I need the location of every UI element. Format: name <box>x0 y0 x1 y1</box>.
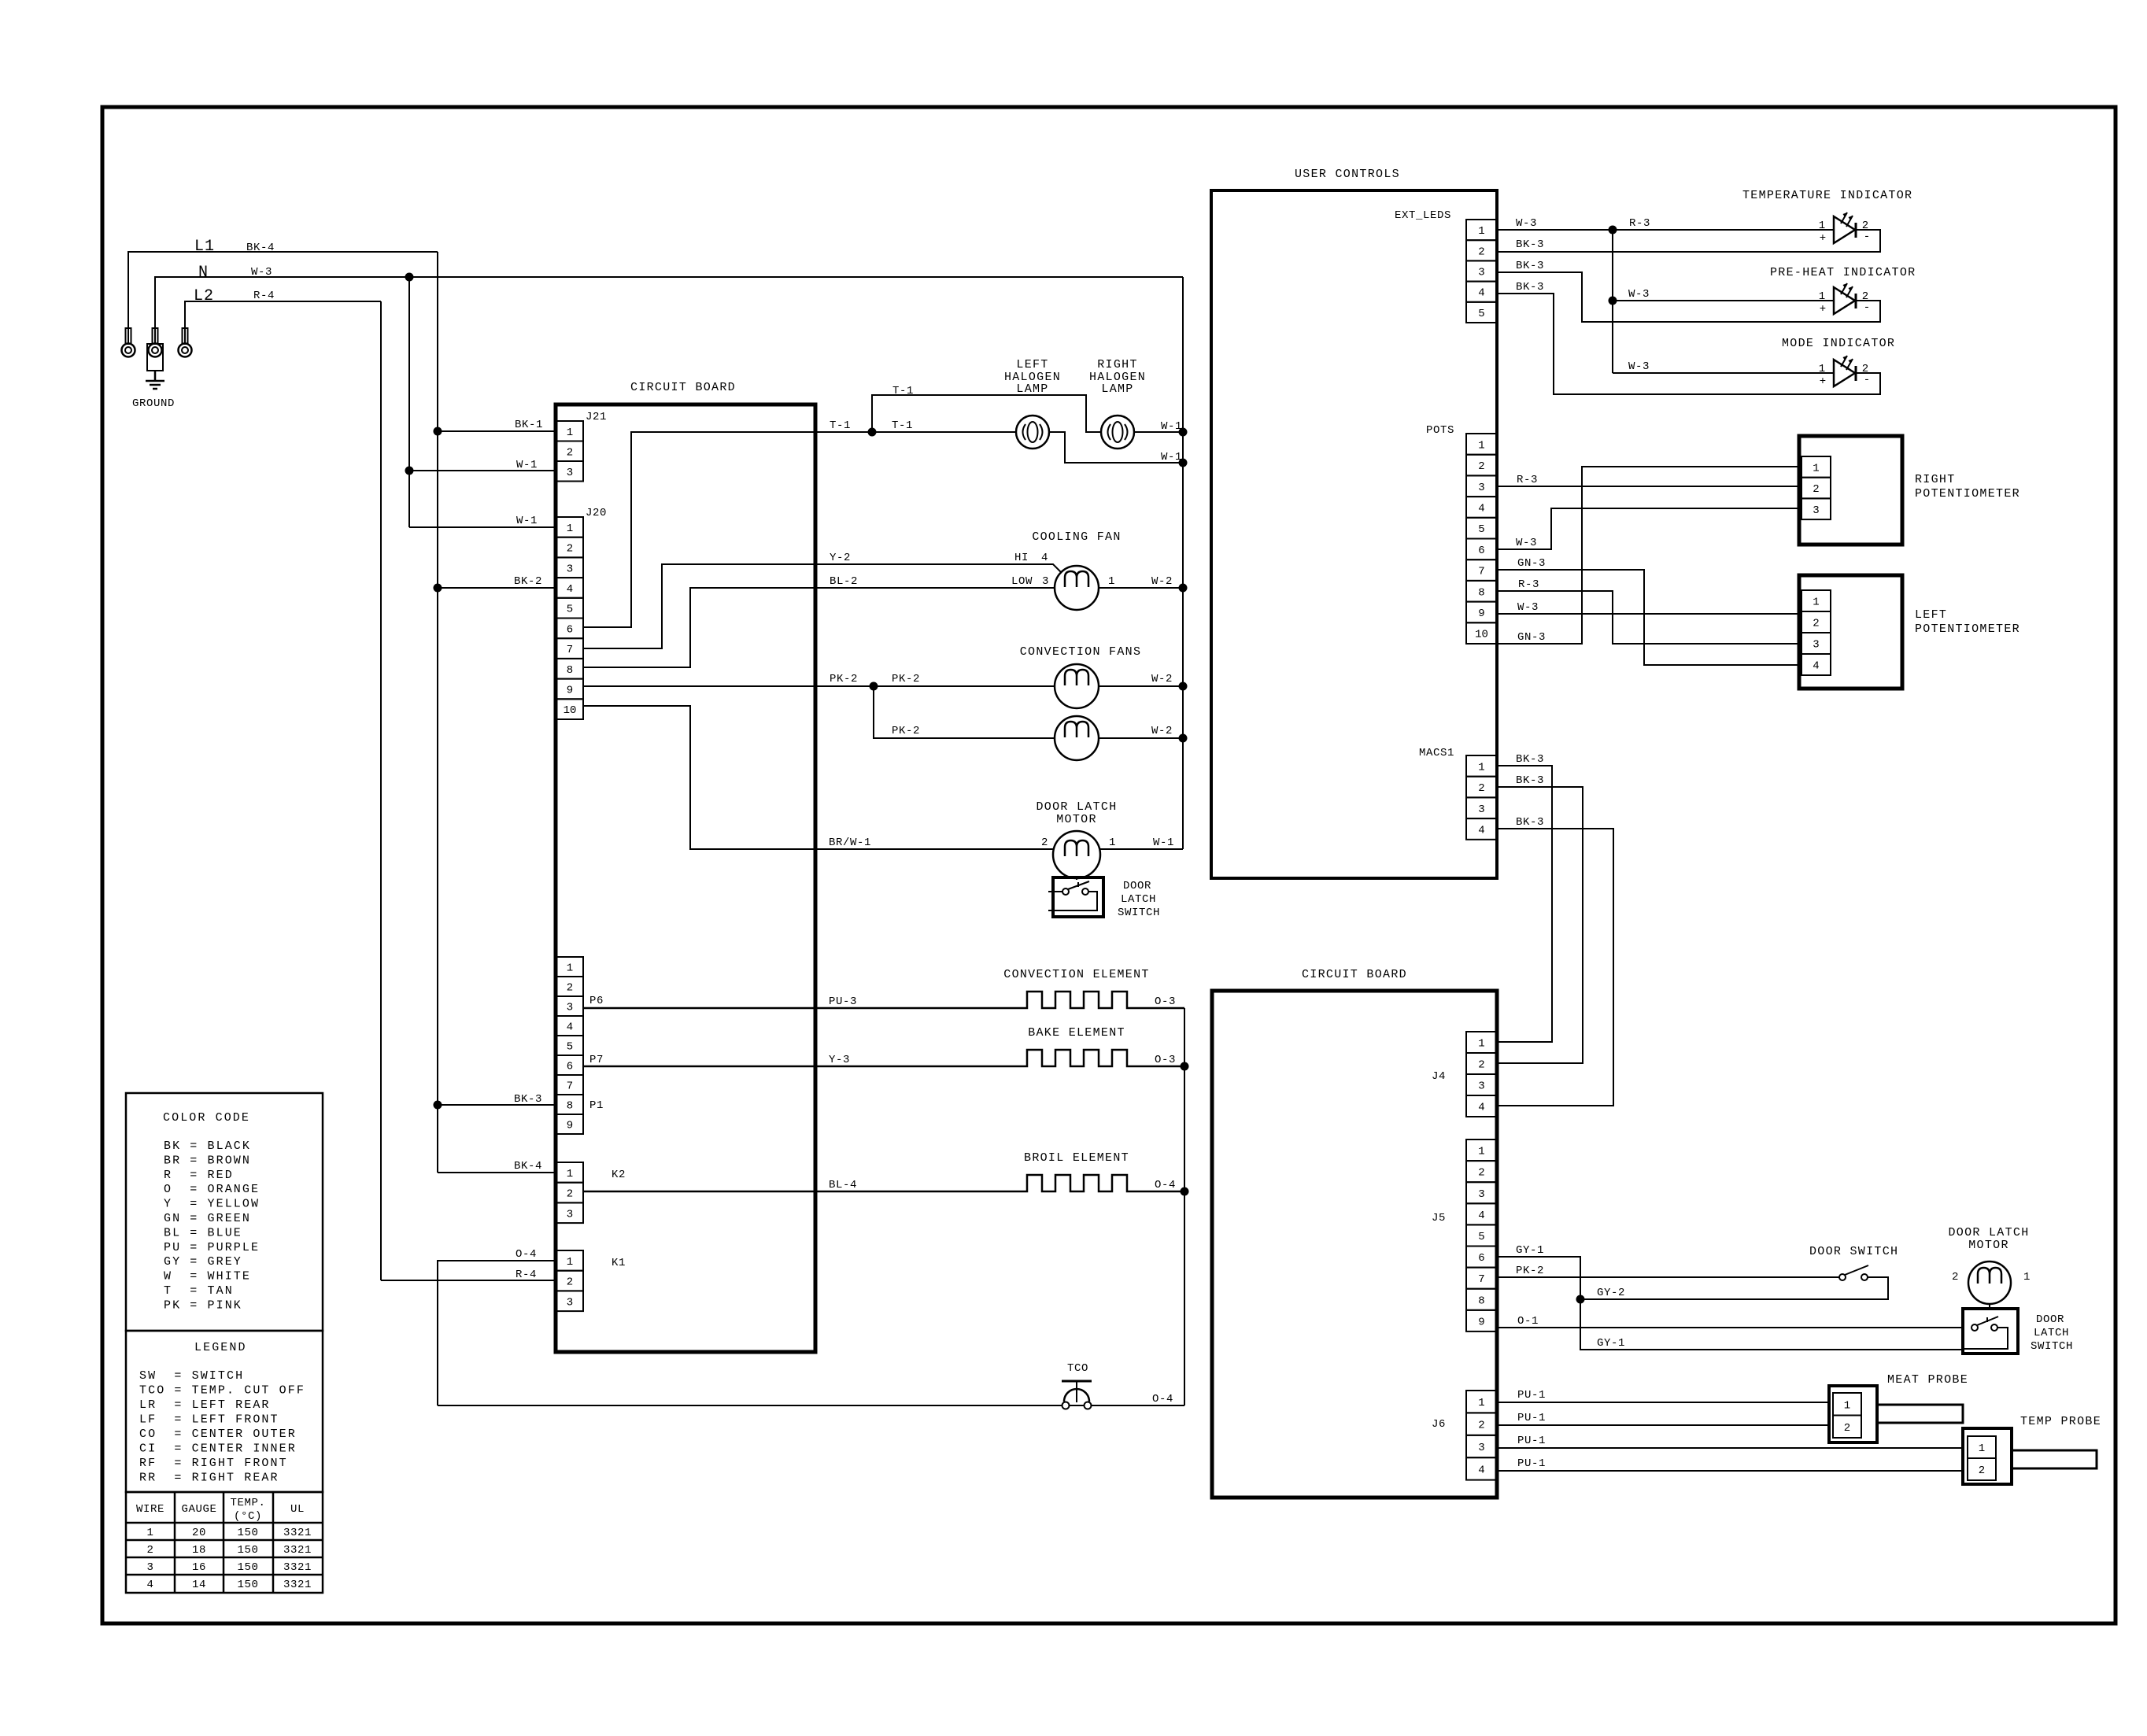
right halogen lamp <box>1101 416 1134 449</box>
svg-text:1: 1 <box>1478 1397 1484 1409</box>
wire T-1 top branch to right lamp <box>868 428 877 437</box>
svg-text:-: - <box>1864 231 1870 243</box>
svg-text:3: 3 <box>567 1002 573 1014</box>
connector EXT_LEDS pin 4 <box>1466 282 1497 302</box>
svg-text:2: 2 <box>567 982 573 995</box>
svg-text:3: 3 <box>1478 1080 1484 1093</box>
svg-text:W-3: W-3 <box>1516 537 1537 549</box>
svg-text:+: + <box>1820 232 1826 245</box>
connector EXT_LEDS pin 3 <box>1466 260 1497 281</box>
temperature indicator LED <box>1834 216 1855 243</box>
connector J4 pin 1 <box>1466 1032 1497 1053</box>
svg-text:CIRCUIT BOARD: CIRCUIT BOARD <box>1302 968 1407 981</box>
svg-text:BK-1: BK-1 <box>515 419 543 431</box>
svg-text:PRE-HEAT INDICATOR: PRE-HEAT INDICATOR <box>1770 266 1916 279</box>
svg-text:9: 9 <box>1478 608 1484 620</box>
wire W neutral bus <box>1182 277 1184 849</box>
svg-text:2: 2 <box>1844 1422 1850 1435</box>
connector J20 pin 4 <box>556 578 583 598</box>
connector MACS1 pin 4 <box>1466 818 1497 840</box>
wire W-1 right lamp return <box>1134 431 1183 433</box>
temp probe pin 1 <box>1968 1436 1996 1458</box>
svg-text:RF = RIGHT FRONT: RF = RIGHT FRONT <box>139 1457 288 1470</box>
connector J5 pin 4 <box>1466 1203 1497 1224</box>
svg-text:3: 3 <box>146 1561 153 1574</box>
svg-text:BR = BROWN: BR = BROWN <box>164 1154 251 1167</box>
connector P6/P7/P1 pin 4 <box>556 1016 583 1036</box>
connector J20 pin 9 <box>556 679 583 700</box>
svg-text:J21: J21 <box>586 411 607 423</box>
connector J20 pin 1 <box>556 517 583 537</box>
svg-text:J20: J20 <box>586 507 607 519</box>
svg-text:BK-3: BK-3 <box>1516 753 1544 766</box>
svg-text:2: 2 <box>567 1188 573 1201</box>
svg-text:2: 2 <box>1478 460 1484 473</box>
wire BK-3 MACS1 pin2 to J4 pin2 <box>1497 787 1583 1063</box>
svg-text:3: 3 <box>1813 504 1819 517</box>
connector J4 pin 2 <box>1466 1053 1497 1074</box>
svg-text:TEMP PROBE: TEMP PROBE <box>2020 1415 2101 1428</box>
svg-text:O-4: O-4 <box>1155 1179 1176 1191</box>
svg-text:LOW: LOW <box>1011 575 1033 588</box>
svg-text:W-1: W-1 <box>1153 837 1174 849</box>
svg-text:J6: J6 <box>1432 1418 1446 1431</box>
terminal lug L1 <box>126 328 131 344</box>
svg-text:150: 150 <box>237 1527 258 1539</box>
svg-text:LAMP: LAMP <box>1016 382 1048 396</box>
wire BK-3 mode return <box>1497 294 1880 394</box>
convection element resistor <box>583 992 1184 1008</box>
svg-text:2: 2 <box>1813 483 1819 496</box>
svg-text:1: 1 <box>1478 761 1484 774</box>
svg-text:6: 6 <box>567 1061 573 1073</box>
connector POTS pin 10 <box>1466 622 1497 644</box>
wire W-2 cooling fan return <box>1099 587 1183 589</box>
svg-text:MEAT PROBE: MEAT PROBE <box>1887 1373 1968 1387</box>
color code box <box>126 1093 323 1331</box>
svg-text:PK-2: PK-2 <box>830 673 858 685</box>
svg-text:1: 1 <box>1109 837 1116 849</box>
svg-text:LAMP: LAMP <box>1101 382 1133 396</box>
svg-text:WIRE: WIRE <box>136 1503 164 1516</box>
svg-text:3321: 3321 <box>283 1579 312 1591</box>
svg-text:EXT_LEDS: EXT_LEDS <box>1395 209 1451 222</box>
svg-text:RIGHT: RIGHT <box>1915 473 1956 486</box>
svg-text:3: 3 <box>567 563 573 575</box>
door latch motor 2 <box>1968 1261 2011 1304</box>
door latch switch box <box>1053 877 1103 917</box>
connector POTS pin 2 <box>1466 455 1497 476</box>
svg-text:R-3: R-3 <box>1517 474 1538 486</box>
svg-text:1: 1 <box>1478 1146 1484 1158</box>
connector POTS pin 9 <box>1466 602 1497 623</box>
temp probe pin 2 <box>1968 1458 1996 1480</box>
connector J4 pin 4 <box>1466 1095 1497 1117</box>
connector POTS pin 4 <box>1466 497 1497 518</box>
svg-text:3321: 3321 <box>283 1544 312 1557</box>
temp probe connector <box>1963 1428 2012 1484</box>
connector J5 pin 9 <box>1466 1310 1497 1332</box>
svg-text:4: 4 <box>1813 660 1819 673</box>
svg-text:DOOR: DOOR <box>1123 880 1151 892</box>
connector J5 pin 7 <box>1466 1268 1497 1289</box>
svg-text:+: + <box>1820 375 1826 388</box>
wire L2 feed <box>185 301 381 344</box>
svg-text:BK = BLACK: BK = BLACK <box>164 1139 251 1153</box>
svg-text:GY-1: GY-1 <box>1516 1244 1544 1257</box>
circuit board 2 <box>1212 991 1497 1498</box>
wire PU-1 J6 pin2 <box>1497 1424 1829 1426</box>
svg-text:9: 9 <box>1478 1316 1484 1328</box>
svg-text:HI: HI <box>1014 552 1029 564</box>
svg-text:RIGHT: RIGHT <box>1097 358 1138 371</box>
svg-text:POTENTIOMETER: POTENTIOMETER <box>1915 487 2020 500</box>
svg-text:6: 6 <box>1478 1252 1484 1265</box>
svg-text:T = TAN: T = TAN <box>164 1284 234 1298</box>
wire W-2 convection fan1 return <box>1099 685 1183 687</box>
svg-text:1: 1 <box>146 1527 153 1539</box>
svg-text:20: 20 <box>192 1527 206 1539</box>
left potentiometer pin 1 <box>1801 590 1831 611</box>
svg-text:7: 7 <box>1478 566 1484 578</box>
left potentiometer pin 3 <box>1801 633 1831 654</box>
svg-text:3: 3 <box>1478 803 1484 816</box>
left halogen lamp <box>1016 416 1049 449</box>
wire BK-3 MACS1 pin4 to J4 pin4 <box>1497 829 1613 1106</box>
svg-text:2: 2 <box>1478 1420 1484 1432</box>
wire GN-3 POTS pin10 to right pot pin1 <box>1497 467 1801 644</box>
left potentiometer box <box>1799 575 1902 689</box>
door latch switch 2 contacts <box>1971 1324 1978 1331</box>
connector P6/P7/P1 pin 7 <box>556 1075 583 1095</box>
svg-text:2: 2 <box>1478 1059 1484 1072</box>
svg-text:1: 1 <box>1979 1442 1985 1455</box>
wire W-3 R-3 to temperature LED <box>1497 229 1834 231</box>
connector POTS pin 5 <box>1466 518 1497 539</box>
svg-text:W-3: W-3 <box>1628 288 1650 301</box>
wire GY-1 from J5 pin6 <box>1497 1257 1963 1350</box>
svg-text:COOLING FAN: COOLING FAN <box>1032 530 1121 544</box>
svg-text:3: 3 <box>1478 1442 1484 1454</box>
svg-text:PU-1: PU-1 <box>1517 1435 1546 1447</box>
connector J20 pin 6 <box>556 619 583 639</box>
svg-text:BK-3: BK-3 <box>1516 238 1544 251</box>
svg-text:BL-4: BL-4 <box>829 1179 857 1191</box>
meat probe connector <box>1829 1386 1877 1442</box>
pre-heat indicator LED <box>1834 287 1855 314</box>
wire W-1 door latch motor return <box>1099 848 1183 850</box>
svg-text:4: 4 <box>1478 1102 1484 1114</box>
svg-text:3: 3 <box>567 467 573 479</box>
svg-text:(°C): (°C) <box>234 1510 262 1523</box>
right potentiometer pin 3 <box>1801 498 1831 519</box>
svg-text:1: 1 <box>2023 1271 2031 1284</box>
svg-text:1: 1 <box>567 523 573 535</box>
svg-text:4: 4 <box>1478 824 1484 837</box>
connector J6 pin 4 <box>1466 1457 1497 1479</box>
svg-text:DOOR LATCH: DOOR LATCH <box>1036 800 1117 814</box>
wire O-1 from J5 pin9 <box>1497 1327 1963 1328</box>
connector K2 pin 3 <box>556 1202 583 1223</box>
cooling fan motor <box>1055 566 1099 610</box>
svg-text:8: 8 <box>567 664 573 677</box>
door latch motor 2 stub <box>1989 1304 1990 1309</box>
connector POTS pin 1 <box>1466 434 1497 455</box>
svg-text:BR/W-1: BR/W-1 <box>829 837 871 849</box>
svg-text:GN-3: GN-3 <box>1517 557 1546 570</box>
wire element O bus <box>1184 1008 1185 1405</box>
connector K1 pin 1 <box>556 1250 583 1271</box>
svg-text:14: 14 <box>192 1579 206 1591</box>
svg-text:MOTOR: MOTOR <box>1056 813 1097 826</box>
svg-text:MACS1: MACS1 <box>1419 747 1454 759</box>
connector P6/P7/P1 pin 2 <box>556 977 583 996</box>
svg-text:2: 2 <box>1478 246 1484 258</box>
svg-text:7: 7 <box>567 1080 573 1093</box>
meat probe pin 1 <box>1833 1393 1861 1416</box>
svg-text:J5: J5 <box>1432 1212 1446 1224</box>
svg-text:R = RED: R = RED <box>164 1169 234 1182</box>
svg-text:POTENTIOMETER: POTENTIOMETER <box>1915 622 2020 636</box>
door latch motor stub <box>1076 877 1077 880</box>
svg-text:4: 4 <box>146 1579 153 1591</box>
svg-text:-: - <box>1864 301 1870 314</box>
wire W-2 convection fan2 return <box>1099 737 1183 739</box>
connector J20 pin 7 <box>556 638 583 659</box>
svg-text:1: 1 <box>1844 1399 1850 1412</box>
svg-text:GY-2: GY-2 <box>1597 1287 1625 1299</box>
svg-text:BK-3: BK-3 <box>1516 816 1544 829</box>
svg-text:1: 1 <box>567 1168 573 1180</box>
svg-text:16: 16 <box>192 1561 206 1574</box>
svg-text:PK = PINK: PK = PINK <box>164 1298 242 1312</box>
broil element resistor <box>583 1175 1184 1191</box>
connector J20 pin 10 <box>556 699 583 719</box>
svg-text:PU = PURPLE: PU = PURPLE <box>164 1241 260 1254</box>
svg-text:K1: K1 <box>612 1257 626 1269</box>
door latch motor <box>1053 831 1100 878</box>
wire BL-2 from J20 pin8 LOW <box>583 588 1055 667</box>
connector J5 pin 6 <box>1466 1247 1497 1268</box>
svg-text:BROIL ELEMENT: BROIL ELEMENT <box>1024 1151 1129 1165</box>
svg-text:8: 8 <box>567 1100 573 1113</box>
TCO symbol <box>1062 1380 1092 1383</box>
connector K1 pin 3 <box>556 1291 583 1311</box>
svg-text:TCO: TCO <box>1067 1362 1088 1375</box>
svg-text:4: 4 <box>567 583 573 596</box>
left potentiometer pin 2 <box>1801 611 1831 633</box>
svg-text:R-4: R-4 <box>253 290 275 302</box>
wire BK-3 MACS1 pin1 to J4 pin1 <box>1497 766 1552 1042</box>
wire PU-1 J6 pin3 <box>1497 1447 1963 1449</box>
svg-text:2: 2 <box>1813 618 1819 630</box>
svg-text:3: 3 <box>1042 575 1049 588</box>
connector P6/P7/P1 pin 6 <box>556 1055 583 1075</box>
svg-text:3: 3 <box>567 1208 573 1221</box>
svg-text:W-2: W-2 <box>1151 673 1173 685</box>
meat probe shaft <box>1877 1405 1963 1423</box>
connector J5 pin 5 <box>1466 1224 1497 1246</box>
right potentiometer pin 1 <box>1801 456 1831 478</box>
svg-text:PU-1: PU-1 <box>1517 1389 1546 1402</box>
connector J6 pin 1 <box>1466 1391 1497 1413</box>
connector MACS1 pin 3 <box>1466 797 1497 818</box>
wire BK-3 temperature LED return <box>1497 230 1880 252</box>
svg-text:BK-3: BK-3 <box>1516 260 1544 272</box>
wire BK-3 pre-heat return <box>1497 272 1880 322</box>
svg-text:1: 1 <box>1813 597 1819 609</box>
svg-text:4: 4 <box>1478 502 1484 515</box>
svg-text:CI = CENTER INNER: CI = CENTER INNER <box>139 1442 297 1456</box>
svg-text:2: 2 <box>1041 837 1048 849</box>
legend box <box>126 1331 323 1492</box>
svg-text:LF = LEFT FRONT: LF = LEFT FRONT <box>139 1413 279 1427</box>
connector K2 pin 2 <box>556 1183 583 1203</box>
meat probe pin 2 <box>1833 1416 1861 1439</box>
svg-text:O-4: O-4 <box>516 1248 537 1261</box>
left potentiometer pin 4 <box>1801 654 1831 675</box>
svg-text:DOOR SWITCH: DOOR SWITCH <box>1809 1245 1898 1258</box>
ground symbol <box>146 371 164 389</box>
svg-text:O = ORANGE: O = ORANGE <box>164 1183 260 1196</box>
svg-text:GAUGE: GAUGE <box>181 1503 216 1516</box>
svg-text:PK-2: PK-2 <box>892 673 920 685</box>
svg-text:3321: 3321 <box>283 1561 312 1574</box>
svg-text:W-2: W-2 <box>1151 575 1173 588</box>
right potentiometer box <box>1799 436 1902 545</box>
svg-text:DOOR LATCH: DOOR LATCH <box>1948 1226 2029 1239</box>
svg-text:2: 2 <box>1979 1465 1985 1477</box>
svg-text:CO = CENTER OUTER: CO = CENTER OUTER <box>139 1428 297 1441</box>
svg-text:1: 1 <box>1478 1038 1484 1051</box>
door latch switch 2 box <box>1963 1309 2018 1354</box>
svg-text:BK-4: BK-4 <box>514 1160 542 1173</box>
svg-text:4: 4 <box>1478 287 1484 300</box>
svg-text:PK-2: PK-2 <box>1516 1265 1544 1277</box>
svg-text:MODE INDICATOR: MODE INDICATOR <box>1782 337 1895 350</box>
svg-text:O-4: O-4 <box>1152 1393 1173 1405</box>
bake element resistor <box>583 1050 1184 1066</box>
svg-text:COLOR CODE: COLOR CODE <box>163 1111 250 1125</box>
svg-text:R-3: R-3 <box>1518 578 1539 591</box>
circuit board main <box>556 404 815 1352</box>
svg-text:USER CONTROLS: USER CONTROLS <box>1295 168 1400 181</box>
svg-text:1: 1 <box>567 1256 573 1269</box>
svg-text:3: 3 <box>567 1296 573 1309</box>
svg-text:P1: P1 <box>589 1099 604 1112</box>
connector POTS pin 6 <box>1466 539 1497 560</box>
svg-text:3: 3 <box>1478 1188 1484 1201</box>
wire W-3 to pre-heat LED <box>1613 300 1834 301</box>
svg-text:K2: K2 <box>612 1169 626 1181</box>
connector EXT_LEDS pin 5 <box>1466 302 1497 323</box>
wire W branch vertical <box>408 277 410 527</box>
wire L1 BK bus vertical <box>437 252 438 1173</box>
svg-text:2: 2 <box>1478 782 1484 795</box>
wire GY-2 door switch return <box>1580 1277 1888 1299</box>
connector P6/P7/P1 pin 1 <box>556 957 583 977</box>
right potentiometer pin 2 <box>1801 478 1831 499</box>
svg-text:LATCH: LATCH <box>2034 1327 2069 1339</box>
svg-text:LATCH: LATCH <box>1121 893 1156 906</box>
svg-text:LEGEND: LEGEND <box>194 1341 247 1354</box>
svg-text:P6: P6 <box>589 995 604 1007</box>
svg-text:GY = GREY: GY = GREY <box>164 1255 242 1269</box>
svg-text:W-3: W-3 <box>1628 360 1650 373</box>
svg-text:2: 2 <box>567 1276 573 1289</box>
svg-text:3: 3 <box>1813 639 1819 652</box>
svg-text:UL: UL <box>290 1503 305 1516</box>
svg-text:SWITCH: SWITCH <box>1118 907 1160 919</box>
svg-text:TCO = TEMP. CUT OFF: TCO = TEMP. CUT OFF <box>139 1384 305 1398</box>
svg-text:9: 9 <box>567 684 573 696</box>
svg-text:Y-2: Y-2 <box>830 552 851 564</box>
svg-text:PU-1: PU-1 <box>1517 1457 1546 1470</box>
svg-text:1: 1 <box>1819 290 1825 303</box>
wire L1 feed <box>128 252 438 344</box>
convection fan motor 1 <box>1055 664 1099 708</box>
wire T-1 from J20 pin6 <box>583 432 1016 627</box>
connector P6/P7/P1 pin 5 <box>556 1036 583 1055</box>
wire W-3 POTS pin9 to left pot pin2 <box>1497 613 1801 615</box>
svg-text:RR = RIGHT REAR: RR = RIGHT REAR <box>139 1472 279 1485</box>
svg-text:5: 5 <box>1478 1231 1484 1243</box>
svg-text:GN-3: GN-3 <box>1517 631 1546 644</box>
svg-text:5: 5 <box>1478 523 1484 536</box>
svg-text:BK-3: BK-3 <box>1516 774 1544 787</box>
svg-text:LR = LEFT REAR: LR = LEFT REAR <box>139 1398 271 1412</box>
svg-text:8: 8 <box>1478 1295 1484 1307</box>
wire L2 R bus vertical <box>380 301 382 1280</box>
svg-text:1: 1 <box>1478 439 1484 452</box>
svg-text:POTS: POTS <box>1426 424 1454 437</box>
connector P6/P7/P1 pin 8 <box>556 1095 583 1114</box>
svg-text:6: 6 <box>1478 545 1484 557</box>
connector J21 pin 3 <box>556 461 583 482</box>
connector P6/P7/P1 pin 3 <box>556 996 583 1016</box>
svg-text:CONVECTION ELEMENT: CONVECTION ELEMENT <box>1003 968 1149 981</box>
wire W-1 left lamp return <box>1049 432 1183 463</box>
svg-text:R-4: R-4 <box>516 1269 537 1281</box>
svg-text:BK-2: BK-2 <box>514 575 542 588</box>
wire W-3 POTS pin6 to right pot pin3 <box>1497 508 1801 549</box>
svg-text:9: 9 <box>567 1120 573 1132</box>
svg-text:W-3: W-3 <box>1516 217 1537 230</box>
wire N feed <box>155 277 1183 344</box>
svg-text:GROUND: GROUND <box>132 397 175 410</box>
svg-text:10: 10 <box>564 704 577 717</box>
svg-text:1: 1 <box>1108 575 1115 588</box>
connector J5 pin 2 <box>1466 1161 1497 1182</box>
wire R-3 POTS pin8 to left pot pin3 <box>1497 591 1801 644</box>
wire O-4 TCO run <box>438 1405 1184 1406</box>
svg-text:J4: J4 <box>1432 1070 1446 1083</box>
wire W-3 to mode LED <box>1613 372 1834 374</box>
svg-text:8: 8 <box>1478 586 1484 599</box>
svg-text:LEFT: LEFT <box>1915 608 1947 622</box>
svg-text:W-1: W-1 <box>516 515 538 527</box>
svg-text:-: - <box>1864 374 1870 386</box>
wire PU-1 J6 pin4 <box>1497 1470 1963 1472</box>
wire PK-2 from J5 pin7 to door switch <box>1497 1276 1839 1278</box>
svg-text:O-1: O-1 <box>1517 1315 1539 1328</box>
connector J21 pin 1 <box>556 421 583 441</box>
svg-text:5: 5 <box>1478 308 1484 320</box>
svg-text:PK-2: PK-2 <box>892 725 920 737</box>
svg-text:O-3: O-3 <box>1155 995 1176 1008</box>
svg-text:R-3: R-3 <box>1629 217 1650 230</box>
svg-text:1: 1 <box>567 427 573 439</box>
